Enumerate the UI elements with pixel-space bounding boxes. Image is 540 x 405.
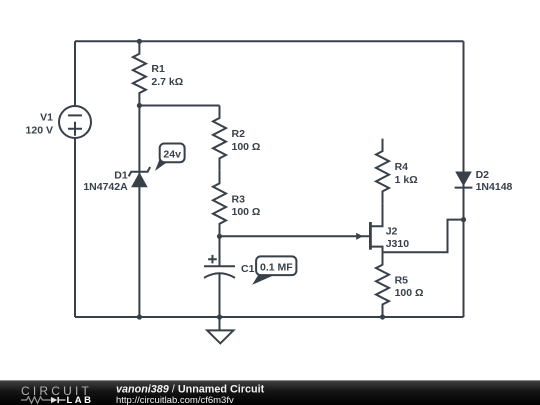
svg-text:R1: R1 (151, 63, 165, 75)
svg-text:100 Ω: 100 Ω (232, 141, 261, 153)
svg-text:http://circuitlab.com/cf6m3fv: http://circuitlab.com/cf6m3fv (116, 395, 234, 405)
svg-text:V1: V1 (40, 112, 53, 124)
svg-text:R5: R5 (395, 274, 409, 286)
svg-text:100 Ω: 100 Ω (232, 206, 261, 218)
svg-text:R2: R2 (232, 128, 246, 140)
svg-text:120 V: 120 V (26, 125, 53, 137)
svg-text:2.7 kΩ: 2.7 kΩ (151, 76, 183, 88)
svg-text:D2: D2 (476, 169, 490, 181)
svg-text:1 kΩ: 1 kΩ (395, 174, 418, 186)
svg-text:vanoni389 / Unnamed Circuit: vanoni389 / Unnamed Circuit (116, 383, 265, 395)
svg-text:C1: C1 (241, 263, 255, 275)
svg-text:J310: J310 (386, 238, 410, 250)
svg-text:R4: R4 (395, 161, 409, 173)
svg-text:J2: J2 (386, 226, 398, 238)
svg-text:R3: R3 (232, 193, 246, 205)
svg-text:LAB: LAB (67, 395, 94, 405)
svg-text:1N4742A: 1N4742A (83, 181, 128, 193)
svg-text:D1: D1 (114, 170, 128, 182)
svg-text:24v: 24v (163, 148, 181, 160)
svg-text:100 Ω: 100 Ω (395, 287, 424, 299)
svg-text:0.1 MF: 0.1 MF (260, 262, 293, 274)
svg-text:1N4148: 1N4148 (476, 181, 513, 193)
